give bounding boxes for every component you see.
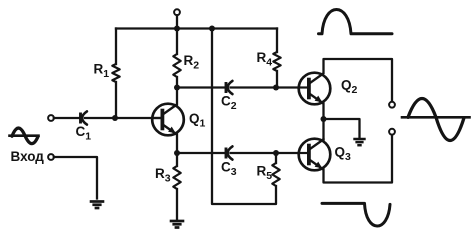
label C2 bbox=[221, 94, 237, 113]
waveform: input sine symbol bbox=[10, 128, 39, 144]
wire: R4 bottom lead bbox=[276, 71, 278, 88]
wire: emitter junction to ground bbox=[324, 119, 360, 138]
svg-text:Вход: Вход bbox=[11, 149, 45, 164]
label R3 bbox=[155, 166, 171, 185]
resistor R3 bbox=[173, 166, 180, 189]
node: Q1 collector junction bbox=[174, 85, 180, 91]
wire: C2 to Q2 base bbox=[231, 86, 299, 88]
wire: C3 to Q3 base bbox=[231, 152, 299, 154]
svg-text:R4: R4 bbox=[257, 50, 273, 69]
capacitor C1 bbox=[81, 111, 87, 124]
wire: input to C1 bbox=[54, 117, 79, 119]
label R2 bbox=[184, 53, 200, 72]
capacitor C2 bbox=[226, 81, 232, 94]
svg-text:C2: C2 bbox=[221, 94, 237, 113]
wire: C3 line left bbox=[177, 152, 225, 154]
wire: supply stub bbox=[176, 15, 178, 28]
wire: R2 bottom lead bbox=[176, 77, 178, 88]
label R1 bbox=[94, 62, 110, 81]
svg-text:R2: R2 bbox=[184, 53, 200, 72]
wire: mid vertical feed bbox=[212, 29, 276, 205]
transistor Q2 bbox=[298, 73, 330, 105]
transistor Q3 bbox=[298, 139, 330, 171]
label Q2 bbox=[341, 78, 358, 97]
node: rail junction A bbox=[174, 26, 180, 32]
svg-text:C3: C3 bbox=[221, 160, 237, 179]
waveform: negative half-cycle (Q3) bbox=[322, 203, 390, 226]
svg-text:R3: R3 bbox=[155, 166, 171, 185]
capacitor C3 bbox=[226, 146, 232, 159]
svg-text:Q1: Q1 bbox=[189, 111, 206, 130]
node: Q3 base junction bbox=[273, 150, 279, 156]
svg-text:R1: R1 bbox=[94, 62, 110, 81]
waveform: positive half-cycle (Q2) bbox=[319, 10, 393, 34]
wire: R1 top lead bbox=[115, 29, 117, 65]
label Q1 bbox=[189, 111, 206, 130]
terminal: input signal bbox=[48, 115, 54, 121]
wire: C1 to Q1 base bbox=[85, 117, 162, 119]
wire: Q1 emitter lead bbox=[176, 135, 178, 154]
wire: C2 line left bbox=[177, 86, 225, 88]
terminal: input ground side bbox=[48, 154, 54, 160]
wire: R5 top lead bbox=[275, 153, 277, 163]
label R5 bbox=[257, 164, 273, 183]
transistor Q1 bbox=[152, 104, 184, 136]
wire: +V top rail bbox=[116, 27, 277, 29]
wire: Q2 to Q3 link bbox=[322, 119, 324, 139]
ground: R3 bbox=[170, 221, 185, 228]
terminal: supply top bbox=[174, 9, 180, 15]
node: emitter junction bbox=[321, 116, 327, 122]
wire: Q2 collector to output bbox=[324, 59, 393, 102]
node: base junction bbox=[112, 115, 118, 121]
resistor R4 bbox=[273, 52, 280, 71]
terminal: output top bbox=[389, 102, 395, 108]
ground: input bbox=[90, 202, 105, 209]
wire: R1 bottom lead bbox=[115, 82, 117, 118]
terminal: output bottom bbox=[389, 129, 395, 135]
wire: R3 bottom lead bbox=[176, 189, 178, 220]
label C3 bbox=[221, 160, 237, 179]
wire: Q1 collector lead bbox=[176, 88, 178, 105]
svg-text:C1: C1 bbox=[76, 124, 92, 143]
node: rail junction B bbox=[209, 26, 215, 32]
svg-text:Q3: Q3 bbox=[335, 145, 352, 164]
label C1 bbox=[76, 124, 92, 143]
resistor R1 bbox=[112, 64, 119, 82]
ground: mid bbox=[353, 139, 365, 145]
wire: Q3 collector lead bbox=[322, 140, 324, 142]
label: Вход (input) bbox=[11, 149, 45, 164]
waveform: output full sine bbox=[402, 99, 470, 141]
svg-text:Q2: Q2 bbox=[341, 78, 358, 97]
wire: R2 top lead bbox=[176, 29, 178, 55]
resistor R5 bbox=[272, 163, 279, 186]
node: Q1 emitter junction bbox=[174, 150, 180, 156]
node: Q2 base junction bbox=[273, 85, 279, 91]
wire: R4 top lead bbox=[276, 29, 278, 53]
wire: R3 top lead bbox=[176, 153, 178, 166]
label R4 bbox=[257, 50, 273, 69]
svg-text:R5: R5 bbox=[257, 164, 273, 183]
wire: input ground run bbox=[54, 157, 97, 199]
label Q3 bbox=[335, 145, 352, 164]
wire: Q3 emitter to output bbox=[324, 135, 393, 183]
wire: Q2 emitter lead bbox=[322, 104, 324, 120]
resistor R2 bbox=[173, 54, 180, 77]
